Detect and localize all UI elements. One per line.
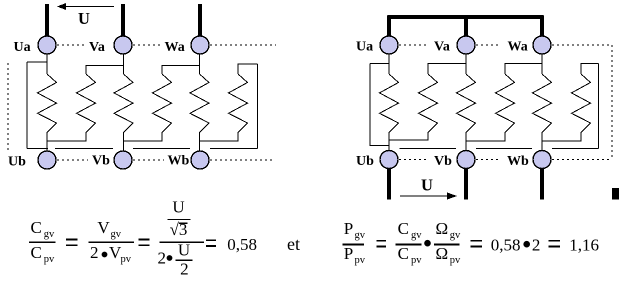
svg-text:Ω: Ω <box>435 244 448 263</box>
svg-text:P: P <box>344 244 353 263</box>
voltage arrow U (right circuit, pointing right) <box>400 192 457 199</box>
svg-text:2: 2 <box>180 260 189 279</box>
wire Va down to resistor <box>465 54 467 74</box>
resistor R4 (phase V inner winding) <box>153 74 172 133</box>
resistor R11 (phase W winding 1) <box>533 74 552 133</box>
multiplication dot <box>523 241 530 248</box>
wire Ua down to resistor <box>388 54 390 74</box>
svg-text:gv: gv <box>355 230 366 241</box>
svg-text:Ub: Ub <box>8 155 26 170</box>
terminal stub Ua (thick supply lead) <box>45 4 49 37</box>
resistor R6 (phase W inner winding) <box>229 74 248 133</box>
wire phase-U rail <box>370 64 389 146</box>
wire R8 bottom bracket to Ub <box>389 133 428 140</box>
dotted wire Ub-Vb (right circuit) <box>399 159 427 161</box>
svg-text:pv: pv <box>121 254 132 265</box>
wire right rail (right circuit) <box>598 64 600 149</box>
wire left rail <box>26 62 28 149</box>
svg-text:et: et <box>287 234 300 254</box>
dotted wire Ua-Va <box>57 44 86 46</box>
dotted wire Vb-Wb (right circuit) <box>476 159 500 161</box>
svg-text:pv: pv <box>411 255 422 266</box>
wire R10 top bracket to Wa <box>505 64 542 75</box>
svg-text:Wa: Wa <box>508 40 528 55</box>
svg-text:U: U <box>421 176 433 195</box>
equals sign <box>377 241 387 247</box>
wire branch Ua to phase-U rail <box>370 63 389 65</box>
svg-text:gv: gv <box>411 230 422 241</box>
node Wb (right circuit) <box>533 151 551 169</box>
svg-text:pv: pv <box>44 254 55 265</box>
svg-text:Vb: Vb <box>92 154 110 169</box>
vinculum over 3 <box>179 222 188 224</box>
svg-text:Wb: Wb <box>507 154 529 169</box>
svg-text:C: C <box>31 243 42 262</box>
cursor bar at right edge <box>612 188 619 200</box>
svg-text:0,58: 0,58 <box>491 236 521 255</box>
equals sign <box>549 241 561 247</box>
dashed vertical at far left <box>7 63 9 153</box>
svg-text:U: U <box>78 9 90 28</box>
svg-text:2: 2 <box>532 236 541 255</box>
wire R12 top bracket to right rail <box>581 64 599 75</box>
wire R5 bottom to node Wb <box>199 133 201 151</box>
terminal stub Wa (thick supply lead) <box>198 4 202 37</box>
svg-text:Ua: Ua <box>356 40 373 55</box>
dashed vertical right edge <box>611 45 613 160</box>
equals sign <box>206 240 216 246</box>
node Wa <box>191 36 209 54</box>
wire R6 bottom bracket to Wb <box>200 133 239 141</box>
wire R4 bottom bracket to Vb <box>124 133 163 141</box>
svg-text:C: C <box>398 244 409 263</box>
wire bottom bus (right circuit) <box>400 148 599 150</box>
wire R2 bottom bracket to Ub <box>47 133 86 141</box>
bus bar (thick, ties Ua Va Wa) <box>388 15 544 19</box>
stub bus to Wa (thick) <box>540 16 544 38</box>
svg-text:C: C <box>398 219 409 238</box>
svg-text:pv: pv <box>355 255 366 266</box>
svg-text:Va: Va <box>434 40 450 55</box>
wire R7 bottom to node Ub <box>388 133 390 151</box>
wire Va down to resistor <box>123 54 125 74</box>
dotted wire Wb to right edge <box>552 159 612 161</box>
resistor R9 (phase V winding 1) <box>457 74 476 133</box>
node Ua <box>38 36 56 54</box>
wire R8 top bracket to Va <box>428 64 466 75</box>
svg-text:V: V <box>97 218 110 237</box>
svg-text:2: 2 <box>158 249 167 268</box>
equals sign <box>470 241 482 247</box>
equals sign <box>138 239 149 245</box>
wire R12 bottom bracket to Wb <box>542 133 581 141</box>
svg-text:Va: Va <box>89 40 105 55</box>
terminal stub Va (thick supply lead) <box>121 4 125 37</box>
svg-text:Wa: Wa <box>165 40 185 55</box>
dotted wire Vb-Wb <box>133 159 164 161</box>
svg-text:Vb: Vb <box>434 154 452 169</box>
resistor R2 (phase U inner winding) <box>77 74 96 133</box>
node Va (right circuit) <box>457 36 475 54</box>
thick stub below Vb <box>464 169 468 200</box>
node Vb (right circuit) <box>457 151 475 169</box>
wire Wa down to resistor <box>541 54 543 74</box>
multiplication dot <box>424 240 431 247</box>
dotted wire Wa to right edge <box>552 44 612 46</box>
dotted wire Va-Wa (right circuit) <box>476 44 500 46</box>
wire R2 top bracket to Va <box>86 66 124 75</box>
wire right rail (left circuit) <box>257 64 259 149</box>
dotted wire from Wb to the right <box>210 159 272 161</box>
wire R10 bottom bracket to Vb <box>466 133 505 141</box>
node Ub <box>38 151 56 169</box>
node Vb <box>114 151 132 169</box>
thick stub below Ub <box>387 169 391 200</box>
wire R4 top bracket to Wa <box>162 66 200 75</box>
resistor R1 (phase U outer winding) <box>38 74 57 133</box>
node Wb <box>191 151 209 169</box>
svg-text:Ω: Ω <box>435 219 448 238</box>
svg-text:C: C <box>31 218 42 237</box>
stub bus to Ua (thick) <box>387 16 391 38</box>
wire Wa down to resistor <box>199 54 201 74</box>
svg-text:P: P <box>344 219 353 238</box>
node Ua (right circuit) <box>380 36 398 54</box>
dotted wire Ua-Va (right circuit) <box>399 44 427 46</box>
svg-text:U: U <box>178 241 190 260</box>
resistor R12 (phase W winding 2) <box>572 74 591 133</box>
resistor R7 (phase U winding 1) <box>380 74 399 133</box>
svg-text:Ub: Ub <box>356 154 374 169</box>
svg-text:gv: gv <box>44 229 55 240</box>
svg-text:gv: gv <box>111 229 122 240</box>
resistor R5 (phase W outer winding) <box>190 74 209 133</box>
svg-text:U: U <box>172 198 184 217</box>
wire branch Ua to left rail <box>27 61 47 63</box>
svg-text:0,58: 0,58 <box>227 235 257 254</box>
dotted wire Ub-Vb <box>57 159 88 161</box>
resistor R10 (phase V winding 2) <box>496 74 515 133</box>
wire Ua down to resistor <box>46 54 48 74</box>
dotted wire from Wa to the right <box>210 44 276 46</box>
wire R11 bottom to node Wb <box>541 133 543 151</box>
svg-text:1,16: 1,16 <box>569 236 599 255</box>
wire bottom bus (left circuit) <box>27 148 258 150</box>
stub bus to Va (thick) <box>464 16 468 38</box>
dotted wire Va-Wa <box>133 44 162 46</box>
wire R3 bottom to node Vb <box>123 133 125 151</box>
node Wa (right circuit) <box>533 36 551 54</box>
svg-text:2: 2 <box>90 243 99 262</box>
equals sign <box>66 239 77 245</box>
svg-text:Wb: Wb <box>168 154 190 169</box>
resistor R8 (phase U winding 2) <box>419 74 438 133</box>
node Va <box>114 36 132 54</box>
svg-text:pv: pv <box>450 255 461 266</box>
voltage arrow U (left circuit, pointing left) <box>57 3 114 10</box>
node Ub (right circuit) <box>380 151 398 169</box>
svg-text:Ua: Ua <box>14 40 31 55</box>
wire right rail to resistor R6 top <box>238 64 258 74</box>
wire R1 bottom to node Ub <box>46 133 48 151</box>
resistor R3 (phase V outer winding) <box>114 74 133 133</box>
thick stub below Wb <box>540 169 544 200</box>
svg-text:gv: gv <box>450 230 461 241</box>
wire R9 bottom to node Vb <box>465 133 467 151</box>
